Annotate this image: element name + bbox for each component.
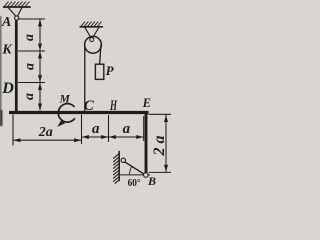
svg-text:a: a	[92, 121, 100, 137]
svg-text:H: H	[109, 98, 117, 114]
svg-text:2a: 2a	[151, 132, 168, 157]
svg-text:C: C	[84, 98, 95, 114]
svg-text:A: A	[1, 15, 11, 30]
svg-text:K: K	[1, 43, 13, 58]
svg-text:M: M	[59, 94, 71, 106]
svg-text:a: a	[123, 121, 131, 137]
svg-text:D: D	[1, 80, 14, 97]
svg-text:a: a	[22, 34, 37, 41]
svg-text:P: P	[106, 63, 115, 78]
svg-text:a: a	[22, 63, 37, 70]
svg-text:60°: 60°	[128, 178, 141, 189]
svg-text:a: a	[22, 93, 37, 100]
svg-text:B: B	[147, 174, 156, 188]
svg-text:E: E	[142, 96, 151, 110]
svg-text:2a: 2a	[38, 125, 53, 140]
